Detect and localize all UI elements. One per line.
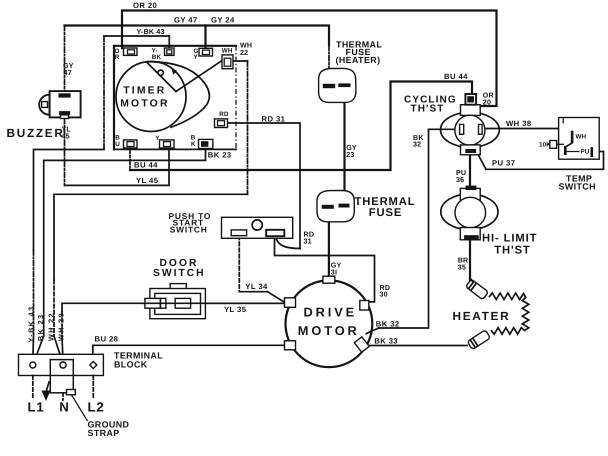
svg-text:(HEATER): (HEATER) xyxy=(336,55,381,65)
svg-text:L1: L1 xyxy=(28,400,45,415)
svg-text:OR 20: OR 20 xyxy=(133,1,157,10)
svg-text:10K: 10K xyxy=(539,141,551,148)
svg-text:BK 33: BK 33 xyxy=(374,336,398,345)
heater connector upper xyxy=(466,279,489,300)
svg-text:YL 35: YL 35 xyxy=(224,305,247,314)
wire BU 44 (timer BU terminal to cycling thermostat) xyxy=(130,82,472,171)
svg-text:3I: 3I xyxy=(331,269,337,277)
wire OR 20 top horizontal run xyxy=(122,11,497,107)
svg-text:TH'ST: TH'ST xyxy=(494,245,530,257)
wire RD 30 (push-to-start switch to drive motor) xyxy=(275,237,375,302)
svg-text:R: R xyxy=(115,54,120,61)
svg-text:WH 29: WH 29 xyxy=(57,312,66,341)
svg-text:FUSE: FUSE xyxy=(369,207,402,219)
timer terminal WH pin xyxy=(222,47,233,68)
svg-text:35: 35 xyxy=(458,264,466,272)
timer motor box xyxy=(114,46,236,150)
timer motor cam xyxy=(116,61,222,132)
wire GY 47 (buzzer to timer GY terminal) xyxy=(65,26,206,91)
svg-text:BK: BK xyxy=(152,54,162,61)
cycling thermostat xyxy=(441,94,500,155)
svg-text:SWITCH: SWITCH xyxy=(170,225,208,235)
svg-text:32: 32 xyxy=(413,141,421,149)
svg-text:TH'ST: TH'ST xyxy=(411,103,445,114)
svg-text:31: 31 xyxy=(304,237,312,245)
svg-text:BU 44: BU 44 xyxy=(444,72,468,81)
thermal fuse (heater) xyxy=(319,68,356,102)
svg-text:Y: Y xyxy=(155,135,160,142)
timer terminal Y pin xyxy=(155,135,174,148)
node L2 lead xyxy=(88,376,105,415)
svg-text:U: U xyxy=(115,141,120,148)
svg-text:Y-BK 43: Y-BK 43 xyxy=(27,306,36,343)
wire YL 45 (buzzer to timer Y terminal) xyxy=(65,119,170,186)
wire GY 23 (thermal fuse heater to thermal fuse) xyxy=(343,88,345,204)
svg-text:PU: PU xyxy=(581,148,590,155)
svg-text:Y: Y xyxy=(194,54,199,61)
timer terminal GY pin xyxy=(194,48,213,61)
svg-text:23: 23 xyxy=(346,151,354,159)
svg-text:BK 32: BK 32 xyxy=(376,319,400,328)
timer terminal BK pin xyxy=(191,134,213,148)
svg-text:GY 47: GY 47 xyxy=(174,15,198,24)
svg-text:GY 24: GY 24 xyxy=(211,15,235,24)
svg-text:30: 30 xyxy=(380,291,388,299)
svg-text:47: 47 xyxy=(64,69,72,77)
timer terminal RD pin xyxy=(215,111,229,127)
svg-text:BK 23: BK 23 xyxy=(208,150,232,159)
ground strap xyxy=(50,360,87,421)
svg-text:45: 45 xyxy=(62,133,70,141)
timer terminal BU pin xyxy=(115,134,137,148)
svg-text:WH: WH xyxy=(576,134,587,141)
svg-text:PU 37: PU 37 xyxy=(492,159,515,168)
wire GY 24 (timer GY terminal to thermal fuse heater) xyxy=(206,26,330,85)
svg-text:HI- LIMIT: HI- LIMIT xyxy=(482,233,537,245)
svg-text:HEATER: HEATER xyxy=(453,309,511,323)
svg-text:WH: WH xyxy=(222,47,233,54)
svg-text:YL 34: YL 34 xyxy=(245,282,268,291)
door switch xyxy=(145,284,286,319)
terminal block bar xyxy=(19,354,104,375)
wire WH 29 (terminal block N to door switch) xyxy=(62,303,143,360)
wire RD 31 (timer RD terminal to push-to-start switch) xyxy=(228,123,301,249)
svg-text:20: 20 xyxy=(483,99,491,107)
wire GY 31 (thermal fuse to drive motor) xyxy=(328,209,330,277)
wire WH 22 (timer WH terminal to terminal block N) xyxy=(54,61,248,362)
timer terminal Y-BK pin xyxy=(152,48,175,61)
wire BK 33 (drive motor to heater) xyxy=(369,345,467,347)
svg-text:WH 38: WH 38 xyxy=(506,119,532,128)
push-to-start switch xyxy=(222,217,293,238)
svg-text:DRIVE: DRIVE xyxy=(304,304,358,319)
temp switch resistor 10K xyxy=(539,141,564,149)
wire YL 35 (door switch to drive motor) xyxy=(143,302,286,304)
node N lead xyxy=(59,393,69,415)
wire PU 36 (cycling to hi-limit) xyxy=(469,155,471,186)
svg-text:K: K xyxy=(191,141,196,148)
heater element zigzag xyxy=(490,293,529,334)
wire BK 32 (cycling thermostat to drive motor) xyxy=(366,129,458,333)
hi-limit thermostat xyxy=(441,186,498,240)
svg-text:36: 36 xyxy=(456,176,464,184)
svg-text:YL 45: YL 45 xyxy=(136,176,159,185)
svg-text:SWITCH: SWITCH xyxy=(559,181,596,191)
svg-text:BUZZER: BUZZER xyxy=(7,126,65,140)
heater connector lower xyxy=(467,330,490,350)
neutral arrow xyxy=(42,382,51,401)
svg-text:BU 44: BU 44 xyxy=(134,160,158,169)
temp switch contact PU xyxy=(567,147,594,157)
svg-text:BLOCK: BLOCK xyxy=(114,359,148,369)
svg-text:Y-BK 43: Y-BK 43 xyxy=(137,28,165,36)
timer terminal OR pin xyxy=(115,48,138,61)
wire WH 38 (cycling thermostat to temp switch) xyxy=(482,129,571,135)
svg-text:STRAP: STRAP xyxy=(88,428,120,438)
wire YL 34 (push-to-start to drive motor) xyxy=(239,236,285,303)
svg-text:SWITCH: SWITCH xyxy=(153,268,206,279)
wire BR 35 (hi-limit to heater) xyxy=(469,240,471,280)
wire BR 35 into connector xyxy=(470,278,473,282)
svg-text:N: N xyxy=(59,400,69,415)
svg-text:MOTOR: MOTOR xyxy=(298,323,360,338)
wire PU 37 (temp switch to cycling thermostat) xyxy=(477,152,604,170)
svg-text:MOTOR: MOTOR xyxy=(120,98,169,109)
svg-text:22: 22 xyxy=(240,49,248,57)
svg-text:BK 23: BK 23 xyxy=(36,314,45,341)
buzzer xyxy=(39,91,80,118)
wire Y-BK 43 (timer terminal to terminal block L1) xyxy=(33,36,170,362)
svg-text:RD 31: RD 31 xyxy=(262,114,286,123)
svg-text:WH 22: WH 22 xyxy=(46,312,55,341)
wire BU 28 (terminal block L2 to drive motor) xyxy=(93,345,286,361)
temp switch contact WH xyxy=(564,131,587,155)
wire BK 23 (timer BK terminal to terminal block L1) xyxy=(34,149,206,362)
svg-text:L2: L2 xyxy=(88,400,105,415)
drive motor xyxy=(285,276,373,367)
thermal fuse (drive motor) xyxy=(317,191,354,222)
svg-text:RD: RD xyxy=(219,111,229,118)
temp switch box xyxy=(559,118,600,160)
node L1 lead xyxy=(28,376,45,415)
svg-text:TIMER: TIMER xyxy=(123,86,166,97)
svg-text:BU 28: BU 28 xyxy=(95,335,119,344)
